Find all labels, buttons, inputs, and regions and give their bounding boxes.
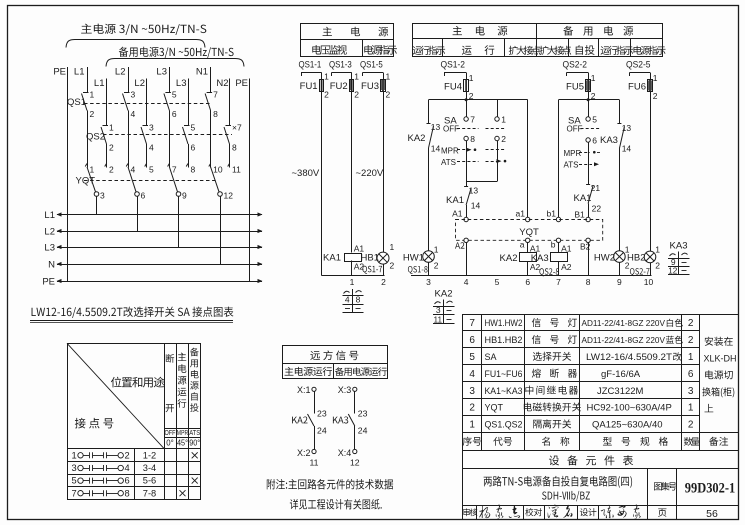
node B1 bbox=[574, 210, 590, 222]
svg-text:FU1: FU1 bbox=[300, 81, 318, 92]
svg-text:MPR: MPR bbox=[564, 149, 582, 158]
svg-text:1: 1 bbox=[688, 403, 694, 414]
svg-text:YQT: YQT bbox=[485, 403, 504, 413]
transfer YQT dashed box bbox=[456, 220, 603, 241]
wire HW2 to rail bbox=[619, 262, 621, 275]
disconnector QS1 pole 1-2 bbox=[82, 90, 95, 120]
label ~380V bbox=[292, 168, 320, 179]
svg-text:HC92-100~630A/4P: HC92-100~630A/4P bbox=[587, 403, 672, 414]
component row 2 YQT bbox=[469, 402, 693, 413]
right header source-indication bbox=[634, 46, 666, 55]
svg-text:90°: 90° bbox=[189, 439, 200, 448]
selector SA contact 1 bbox=[495, 115, 506, 125]
wire column2 upper bbox=[351, 91, 353, 253]
svg-text:5: 5 bbox=[469, 352, 475, 363]
wire backup-right upper bbox=[619, 100, 621, 124]
component table row line bbox=[463, 347, 700, 349]
SA table title bbox=[32, 307, 234, 318]
SA table row line bbox=[67, 474, 201, 476]
label backup source 3/N ~50Hz/TN-S bbox=[119, 47, 234, 58]
svg-text:2: 2 bbox=[501, 134, 506, 144]
svg-text:8: 8 bbox=[470, 134, 475, 144]
transfer switch YQT pole 10-11-12 bbox=[209, 164, 241, 265]
svg-text:HB2: HB2 bbox=[627, 253, 645, 264]
svg-text:~380V: ~380V bbox=[292, 168, 320, 179]
selector SA contact 5 bbox=[586, 115, 597, 125]
node a bbox=[520, 238, 530, 249]
svg-text:10: 10 bbox=[213, 165, 223, 175]
junction main rail bbox=[465, 98, 468, 101]
remote signal cell backup-run bbox=[335, 367, 387, 376]
disconnector QS2 pole 7-8 bbox=[224, 123, 242, 153]
svg-text:3: 3 bbox=[436, 305, 441, 315]
wire HB2 to rail bbox=[650, 263, 652, 276]
SA table vertical 2 bbox=[176, 343, 178, 499]
svg-text:1: 1 bbox=[434, 245, 439, 255]
svg-text:13: 13 bbox=[469, 186, 479, 196]
svg-text:1: 1 bbox=[72, 450, 77, 460]
wire FU5 to rail bbox=[588, 92, 590, 100]
lamp HB1 bbox=[361, 242, 395, 271]
svg-text:N: N bbox=[48, 260, 55, 271]
right header subdivider bbox=[598, 38, 600, 56]
component header 代号 bbox=[493, 437, 512, 446]
right header text main source bbox=[453, 26, 508, 36]
svg-text:MPR: MPR bbox=[441, 147, 459, 156]
label ~220V bbox=[356, 168, 384, 179]
label 页 bbox=[658, 508, 666, 516]
svg-text:2: 2 bbox=[386, 90, 391, 100]
svg-text:9: 9 bbox=[671, 257, 676, 267]
main rail bbox=[429, 99, 528, 101]
wire main feeder 4 upper bbox=[210, 67, 212, 93]
svg-text:QS2-5: QS2-5 bbox=[626, 60, 651, 71]
svg-text:QS1.QS2: QS1.QS2 bbox=[485, 420, 523, 430]
svg-text:5: 5 bbox=[592, 115, 597, 125]
SA table text contact-no bbox=[75, 418, 114, 429]
svg-text:1: 1 bbox=[653, 73, 658, 83]
svg-text:9: 9 bbox=[182, 191, 187, 201]
svg-text:2: 2 bbox=[90, 109, 95, 119]
svg-text:13: 13 bbox=[622, 123, 632, 133]
svg-text:×7: ×7 bbox=[232, 123, 242, 133]
node number 1 bbox=[350, 277, 355, 287]
node b bbox=[551, 238, 561, 249]
svg-text:4: 4 bbox=[149, 143, 154, 153]
svg-text:1: 1 bbox=[324, 72, 329, 82]
component row 4 FU1~FU6 bbox=[469, 369, 693, 380]
transfer switch YQT pole 7-8-9 bbox=[168, 164, 196, 248]
SA table 45deg bbox=[177, 439, 188, 448]
wire PE-right feeder bbox=[249, 79, 251, 282]
svg-text:SA: SA bbox=[485, 352, 497, 362]
label 审核 bbox=[463, 508, 477, 516]
signature row vline bbox=[598, 505, 600, 519]
component table row line bbox=[463, 330, 700, 332]
svg-text:PE: PE bbox=[42, 277, 55, 288]
svg-text:6: 6 bbox=[141, 191, 146, 201]
svg-text:3: 3 bbox=[72, 463, 77, 473]
remark col 安装在 bbox=[705, 337, 733, 346]
signature 2 bbox=[548, 504, 573, 518]
bus PE bbox=[42, 277, 262, 288]
fuse FU5 bbox=[566, 73, 596, 102]
wire backup-left to b1 bbox=[558, 100, 560, 218]
svg-text:KA3: KA3 bbox=[670, 241, 688, 252]
svg-text:KA2: KA2 bbox=[435, 289, 453, 300]
signature row vline bbox=[523, 505, 525, 519]
svg-text:QA125~630A/40: QA125~630A/40 bbox=[592, 420, 663, 431]
svg-text:X:4: X:4 bbox=[338, 448, 352, 458]
wire SA join to KA1 bbox=[466, 182, 468, 187]
wire b to KA3 coil bbox=[558, 243, 560, 253]
right header ext-contact 1 bbox=[509, 46, 541, 55]
wire main feeder 1 upper bbox=[87, 67, 89, 93]
component header 序号 bbox=[463, 437, 482, 446]
right header subdivider bbox=[442, 38, 444, 56]
selector SA backup OFF row bbox=[567, 125, 602, 134]
component row 7 HW1.HW2 bbox=[469, 318, 693, 329]
title 图集号 bbox=[654, 482, 676, 491]
right header run-indication 2 bbox=[601, 46, 634, 55]
svg-text:FU5: FU5 bbox=[566, 82, 584, 93]
terminal QS2-7 bbox=[630, 268, 650, 276]
lamp HB2 bbox=[627, 245, 660, 271]
svg-text:1: 1 bbox=[90, 90, 95, 100]
svg-text:23: 23 bbox=[317, 409, 327, 419]
svg-text:FU3: FU3 bbox=[361, 81, 379, 92]
fuse FU3 bbox=[361, 72, 390, 100]
wire main feeder 2 upper bbox=[128, 67, 130, 93]
label N2 backup bbox=[216, 78, 228, 89]
svg-text:99D302-1: 99D302-1 bbox=[685, 481, 736, 497]
lamp HW2 bbox=[594, 245, 630, 271]
SA table ATS bbox=[189, 430, 200, 437]
svg-text:11: 11 bbox=[232, 165, 241, 175]
selector SA backup label bbox=[568, 116, 581, 127]
middle header text main source bbox=[323, 27, 389, 37]
SA table diagonal bbox=[67, 343, 164, 449]
terminal QS1-1 bbox=[299, 60, 322, 77]
middle header text source indication bbox=[364, 45, 397, 55]
svg-text:22: 22 bbox=[592, 204, 602, 214]
node number 8 bbox=[586, 277, 591, 287]
wire main-left upper bbox=[428, 100, 430, 124]
SA table vertical 1 bbox=[164, 343, 166, 499]
svg-text:OFF: OFF bbox=[567, 125, 583, 134]
remark col 换箱(柜) bbox=[702, 387, 734, 397]
relay contact KA1 21-22 bbox=[574, 183, 602, 214]
svg-text:ATS: ATS bbox=[189, 430, 200, 437]
SA table row 7-8 bbox=[72, 488, 186, 498]
svg-text:7: 7 bbox=[72, 488, 77, 498]
terminal QS1-8 bbox=[408, 266, 428, 274]
svg-text:4: 4 bbox=[131, 165, 136, 175]
fuse FU2 bbox=[330, 72, 359, 100]
svg-text:KA2: KA2 bbox=[500, 253, 518, 264]
wire SA8 down bbox=[466, 141, 468, 182]
component header 名称 bbox=[542, 437, 569, 446]
brace backup source bbox=[106, 59, 244, 67]
fuse FU1 bbox=[300, 72, 329, 100]
svg-text:PE: PE bbox=[235, 78, 248, 89]
svg-text:5: 5 bbox=[72, 476, 77, 486]
label L1 main bbox=[74, 67, 85, 78]
middle panel header box bbox=[301, 24, 394, 57]
wire rail to SA1 bbox=[497, 100, 499, 117]
wire main feeder 4 mid bbox=[210, 111, 212, 167]
remark col 电源切 bbox=[705, 370, 733, 379]
relay coil KA1 bbox=[323, 243, 364, 271]
svg-text:6: 6 bbox=[688, 369, 694, 380]
svg-text:OFF: OFF bbox=[443, 125, 459, 134]
SA table vertical contact-number bbox=[134, 449, 136, 500]
node number 4 bbox=[464, 277, 469, 287]
transfer switch YQT pole 4-5-6 bbox=[126, 164, 154, 232]
wire column1 bbox=[321, 91, 323, 276]
svg-text:2: 2 bbox=[109, 165, 114, 175]
component row 3 KA1~KA3 bbox=[469, 386, 693, 397]
component table row line bbox=[463, 415, 700, 417]
svg-text:L1: L1 bbox=[74, 67, 85, 78]
svg-text:3: 3 bbox=[100, 191, 105, 201]
SA table 90deg bbox=[189, 439, 200, 448]
terminal X:4 bbox=[338, 448, 360, 468]
svg-text:1: 1 bbox=[386, 72, 391, 82]
svg-text:FU6: FU6 bbox=[628, 82, 646, 93]
remote signal divider bbox=[282, 363, 387, 378]
wire FU5 to SA5 bbox=[588, 100, 590, 117]
wire FU4 to rail bbox=[466, 92, 468, 100]
svg-text:MPR: MPR bbox=[177, 430, 188, 437]
wire A2 to rail bbox=[466, 243, 468, 276]
svg-text:HW1: HW1 bbox=[403, 252, 424, 263]
svg-text:2: 2 bbox=[688, 335, 694, 346]
svg-text:8: 8 bbox=[356, 295, 361, 305]
svg-text:gF-16/6A: gF-16/6A bbox=[601, 369, 641, 380]
fuse FU6 bbox=[628, 73, 658, 102]
node number 2 bbox=[381, 277, 386, 287]
svg-text:2: 2 bbox=[434, 261, 439, 271]
terminal QS2-5 bbox=[626, 60, 651, 77]
svg-text:1-2: 1-2 bbox=[143, 450, 156, 460]
wire main-right bbox=[527, 100, 529, 218]
disconnector QS2 label bbox=[86, 132, 105, 143]
bus L2 bbox=[44, 227, 262, 238]
svg-text:N1: N1 bbox=[196, 67, 208, 78]
svg-text:11: 11 bbox=[434, 315, 443, 324]
svg-text:8: 8 bbox=[213, 109, 218, 119]
svg-text:KA1: KA1 bbox=[574, 193, 592, 204]
svg-text:~220V: ~220V bbox=[356, 168, 384, 179]
svg-text:A1: A1 bbox=[452, 209, 463, 219]
svg-text:A1: A1 bbox=[561, 243, 572, 253]
SA contact symbol 4-8 bbox=[343, 289, 364, 313]
wire HW1 to rail bbox=[428, 262, 430, 276]
svg-text:21: 21 bbox=[591, 183, 601, 193]
wire main feeder 3 upper bbox=[169, 67, 171, 93]
SA table row 3-4 bbox=[72, 463, 157, 473]
wire backup feeder 4 upper bbox=[229, 79, 231, 126]
svg-text:1: 1 bbox=[109, 123, 114, 133]
wire B2 to rail bbox=[588, 243, 590, 276]
disconnector QS1 pole 3-4 bbox=[123, 90, 136, 120]
SA table hline degree row bbox=[164, 437, 200, 439]
wire main feeder 3 mid bbox=[169, 111, 171, 167]
svg-text:L3: L3 bbox=[156, 67, 167, 78]
svg-text:FU4: FU4 bbox=[444, 82, 462, 93]
disconnector QS2 pole 5-6 bbox=[183, 123, 196, 153]
svg-text:L3: L3 bbox=[44, 243, 55, 254]
svg-text:QS1-2: QS1-2 bbox=[441, 60, 466, 71]
wire PE-left feeder bbox=[67, 67, 69, 281]
bus L3 bbox=[44, 243, 262, 254]
label L2 main bbox=[115, 67, 126, 78]
svg-text:6: 6 bbox=[525, 277, 530, 287]
svg-text:PE: PE bbox=[53, 67, 66, 78]
svg-text:6: 6 bbox=[469, 335, 475, 346]
node number 7 bbox=[556, 277, 561, 287]
relay coil KA2 bbox=[500, 243, 541, 272]
note line 2 bbox=[290, 499, 382, 509]
wire backup feeder 3 upper bbox=[188, 79, 190, 126]
svg-text:YQT: YQT bbox=[519, 227, 539, 238]
note line 1 bbox=[267, 479, 393, 490]
svg-text:KA1~KA3: KA1~KA3 bbox=[485, 386, 523, 396]
svg-text:1: 1 bbox=[591, 73, 596, 83]
wire FU6 to HB2 bbox=[650, 92, 652, 252]
svg-text:JZC3122M: JZC3122M bbox=[597, 386, 644, 397]
svg-text:12: 12 bbox=[668, 267, 678, 276]
node A1 bbox=[452, 209, 468, 222]
svg-text:1: 1 bbox=[469, 73, 474, 83]
svg-text:14: 14 bbox=[471, 201, 481, 211]
signature row vline bbox=[577, 505, 579, 519]
svg-text:KA1: KA1 bbox=[446, 195, 464, 206]
svg-text:56: 56 bbox=[706, 508, 718, 520]
svg-text:2: 2 bbox=[125, 450, 130, 460]
selector SA MPR row bbox=[441, 147, 506, 156]
right header text backup source bbox=[563, 26, 633, 36]
wire KA3 coil to rail bbox=[558, 261, 560, 276]
label PE backup bbox=[235, 78, 248, 89]
component table vline bbox=[481, 314, 483, 450]
svg-text:X:3: X:3 bbox=[338, 385, 352, 395]
svg-text:FU1~FU6: FU1~FU6 bbox=[485, 369, 523, 379]
middle header text voltage monitor bbox=[312, 45, 347, 55]
transfer switch YQT label bbox=[76, 176, 96, 187]
component table vline bbox=[699, 314, 701, 450]
svg-text:1: 1 bbox=[354, 72, 359, 82]
remote signal cell main-run bbox=[285, 367, 332, 376]
svg-text:10: 10 bbox=[644, 277, 654, 287]
svg-text:8: 8 bbox=[125, 488, 130, 498]
component table header row line bbox=[463, 432, 738, 434]
svg-text:7: 7 bbox=[469, 318, 475, 329]
svg-text:3-4: 3-4 bbox=[143, 463, 156, 473]
svg-text:A2: A2 bbox=[561, 262, 572, 272]
SA table col3 vertical ATS-cn bbox=[190, 348, 199, 412]
dashed link YQT bbox=[84, 180, 216, 182]
svg-text:b: b bbox=[551, 240, 556, 250]
svg-text:4: 4 bbox=[469, 369, 475, 380]
wire main feeder 1 mid bbox=[87, 111, 89, 167]
terminal QS1-5 bbox=[360, 60, 383, 77]
svg-text:1: 1 bbox=[501, 115, 506, 125]
svg-text:1: 1 bbox=[90, 165, 95, 175]
svg-text:1: 1 bbox=[469, 420, 475, 431]
right header divider h bbox=[413, 38, 662, 40]
node number 6 bbox=[525, 277, 530, 287]
brace main source bbox=[66, 40, 205, 48]
selector SA OFF row bbox=[443, 125, 506, 134]
node A2 bbox=[455, 238, 468, 249]
SA table col2 vertical MPR-cn bbox=[177, 353, 186, 408]
svg-text:a1: a1 bbox=[516, 209, 526, 219]
wire KA2 coil to rail bbox=[527, 261, 529, 276]
terminal QS2-2 bbox=[563, 60, 589, 77]
disconnector QS1 label bbox=[67, 97, 86, 108]
svg-text:HW2: HW2 bbox=[594, 252, 615, 263]
component table vline bbox=[579, 314, 581, 450]
right header subdivider bbox=[504, 38, 506, 56]
KA3 contact symbol 9-12 bbox=[668, 241, 690, 276]
svg-text:X:2: X:2 bbox=[297, 448, 311, 458]
label N1 main bbox=[196, 67, 208, 78]
wire backup feeder 4 mid bbox=[229, 144, 231, 167]
SA table row 1-2 bbox=[72, 450, 198, 460]
svg-text:QS1-1: QS1-1 bbox=[299, 60, 322, 71]
wire column3 upper bbox=[383, 91, 385, 252]
svg-text:ATS: ATS bbox=[564, 161, 579, 170]
svg-text:5: 5 bbox=[149, 165, 154, 175]
svg-text:X:1: X:1 bbox=[297, 385, 311, 395]
svg-text:5: 5 bbox=[191, 123, 196, 133]
svg-text:KA1: KA1 bbox=[323, 253, 341, 264]
SA table hline OFF row bbox=[164, 428, 200, 430]
svg-text:6: 6 bbox=[172, 109, 177, 119]
selector SA ATS row bbox=[441, 158, 506, 167]
wire FU4 to SA7 bbox=[466, 100, 468, 117]
svg-text:FU2: FU2 bbox=[330, 81, 348, 92]
svg-text:7: 7 bbox=[172, 165, 177, 175]
wire SA2 down bbox=[497, 141, 499, 182]
wire backup feeder 1 upper bbox=[106, 79, 108, 126]
component row 1 QS1.QS2 bbox=[469, 419, 693, 430]
label 设计 bbox=[580, 508, 597, 516]
svg-text:OFF: OFF bbox=[165, 430, 176, 437]
equipment table caption bbox=[549, 455, 633, 465]
svg-text:12: 12 bbox=[224, 191, 234, 201]
component table row line bbox=[463, 398, 700, 400]
component header 数量 bbox=[684, 437, 700, 446]
component table frame bbox=[463, 315, 739, 520]
transfer switch YQT pole 1-2-3 bbox=[85, 164, 114, 215]
svg-text:7: 7 bbox=[213, 90, 218, 100]
svg-text:5: 5 bbox=[495, 277, 500, 287]
svg-text:2: 2 bbox=[390, 261, 395, 271]
svg-text:6: 6 bbox=[592, 136, 597, 146]
svg-text:AD11-22/41-8GZ 220V: AD11-22/41-8GZ 220V bbox=[582, 335, 666, 345]
relay contact KA2 23-24 bbox=[292, 391, 327, 449]
disconnector QS2 pole 3-4 bbox=[141, 123, 154, 153]
svg-text:3: 3 bbox=[469, 386, 475, 397]
SA table 0deg bbox=[166, 439, 173, 448]
svg-text:LW12-16/4.5509.2T: LW12-16/4.5509.2T bbox=[586, 352, 672, 362]
svg-text:0°: 0° bbox=[166, 439, 173, 448]
component table equipment row line bbox=[463, 450, 738, 452]
svg-text:ATS: ATS bbox=[441, 158, 456, 167]
